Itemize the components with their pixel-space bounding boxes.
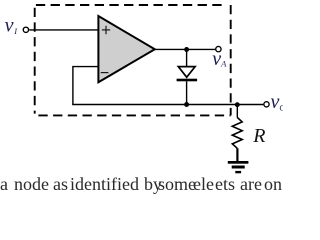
terminal vA	[216, 46, 221, 51]
node junction at resistor tap	[235, 102, 240, 107]
svg-text:R: R	[252, 125, 265, 147]
ground	[228, 161, 249, 173]
node junction at op-amp output	[184, 47, 189, 52]
svg-text:vA: vA	[212, 48, 227, 70]
wire junction to diode anode	[186, 50, 188, 67]
svg-text:vI: vI	[5, 14, 19, 36]
wire feedback from op-amp minus input	[73, 67, 99, 105]
wire resistor top lead	[236, 105, 238, 118]
resistor R	[232, 118, 242, 149]
diode D1	[177, 67, 198, 82]
wire bottom rail	[72, 104, 263, 106]
terminal vO	[264, 102, 269, 107]
op-amp U1	[98, 16, 154, 82]
caption text (cropped at bottom edge)	[0, 175, 283, 185]
wire resistor bottom lead	[236, 148, 238, 161]
dashed enclosure box	[35, 5, 231, 115]
wire diode cathode to bottom rail	[186, 81, 188, 104]
node junction below diode	[184, 102, 189, 107]
wire op-amp output to vA terminal	[155, 48, 216, 50]
svg-text:vO: vO	[271, 91, 284, 113]
wire vI terminal to op-amp + input	[29, 29, 98, 31]
input terminal vI	[23, 27, 28, 32]
